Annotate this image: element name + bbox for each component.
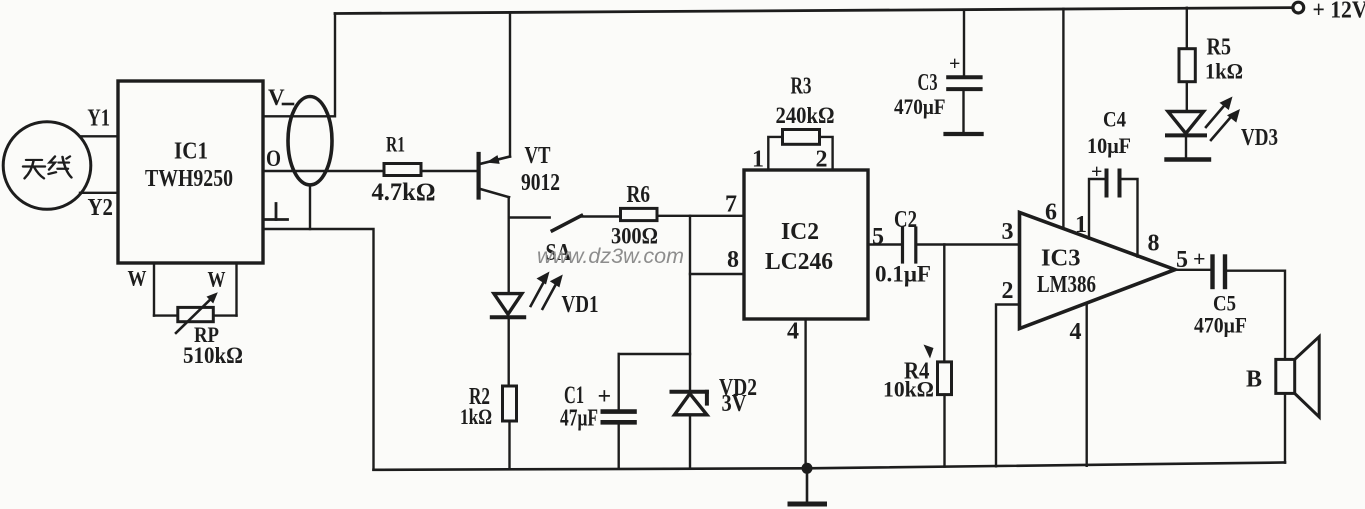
wire speaker to bottom rail [1284,393,1286,462]
capacitor C2 plates [903,228,916,262]
LED VD3 cathode bar [1167,133,1205,137]
op-amp IC3 LM386 triangle [1020,212,1176,328]
svg-text:W: W [208,267,226,292]
wire VT collector down to VD1 [508,198,510,294]
wire RP right [213,314,236,316]
wire W left stub [153,263,155,316]
capacitor C5 plates [1213,257,1226,288]
resistor R6 [621,208,658,220]
svg-text:10kΩ: 10kΩ [883,377,934,402]
wire O pin to R1 [263,170,384,172]
svg-text:R5: R5 [1207,35,1232,61]
wire IC2 pin4 to bottom rail [804,319,806,468]
wire R6 to IC2 pin 7 [657,215,744,217]
wire R4 to bottom rail [943,395,945,467]
wire VD3 stem [1185,135,1187,157]
wire VD1 to R2 [508,317,510,386]
svg-text:2: 2 [816,147,828,173]
svg-text:510kΩ: 510kΩ [183,343,243,368]
wire V- to top rail riser [263,14,335,117]
wire C4 left lead / pin1 [1089,179,1105,239]
wire VD2 to bottom rail [689,415,691,469]
switch SA wire right [582,215,621,217]
terminal +12V [1293,2,1304,13]
svg-text:5: 5 [872,224,884,250]
resistor R2 [503,386,517,421]
resistor R3 [783,130,820,145]
svg-text:R1: R1 [386,132,405,157]
svg-text:V: V [268,85,285,110]
transistor VT 9012 base bar [477,154,481,198]
wire node riser x690 (pin7 node down to VD2) [689,216,691,392]
wire IC3 pin6 riser to +12V rail [1062,9,1064,229]
svg-text:R6: R6 [627,182,651,208]
IC1 TWH9250 box [118,81,263,263]
svg-text:8: 8 [727,247,739,273]
R4 wiper blob [924,345,934,359]
svg-text:470μF: 470μF [1194,313,1247,338]
svg-text:VD1: VD1 [562,292,599,318]
svg-text:Y1: Y1 [87,106,110,132]
resistor R4 [938,362,952,395]
svg-text:C4: C4 [1103,107,1126,132]
wire IC3 output pin5 to C5 [1175,269,1210,271]
svg-text:VD3: VD3 [1241,125,1278,151]
capacitor C4 plates [1107,171,1120,196]
LED VD3 triangle [1168,112,1204,134]
wire Y2 [80,192,118,194]
speaker B horn [1295,337,1320,417]
svg-text:+ 12V: + 12V [1313,0,1365,24]
zener VD2 triangle [675,394,707,415]
LED VD1 triangle [494,294,522,315]
svg-text:470μF: 470μF [894,94,946,119]
svg-text:1kΩ: 1kΩ [460,404,492,429]
svg-text:+: + [1193,246,1206,271]
svg-text:1: 1 [752,147,764,173]
svg-text:6: 6 [1045,200,1057,226]
RP wiper arrow [176,297,213,333]
wire C3 bottom lead [962,91,964,132]
svg-text:+: + [598,384,612,410]
IC2 LC246 box [744,170,868,319]
potentiometer RP [178,307,214,321]
bottom rail [374,463,1286,470]
svg-text:1: 1 [1075,212,1087,238]
resistor R5 [1179,49,1195,82]
svg-text:www.dz3w.com: www.dz3w.com [537,245,684,268]
wire C2 to IC3 pin3 [918,243,1020,245]
svg-text:4: 4 [1070,319,1082,345]
svg-text:LM386: LM386 [1037,272,1096,298]
wire IC3 pin4 to bottom rail [1085,303,1087,466]
top rail +12V [335,8,1293,14]
svg-text:O: O [266,146,281,171]
svg-text:7: 7 [725,192,737,218]
svg-text:3: 3 [1002,219,1014,245]
svg-text:240kΩ: 240kΩ [776,103,835,128]
pin label ⊥ (ground pin) [266,204,288,220]
svg-text:B: B [1246,367,1262,393]
svg-text:VT: VT [525,143,551,169]
svg-text:5: 5 [1176,247,1188,273]
wire C5 to speaker [1227,271,1285,360]
cable ellipse marker [288,97,332,185]
svg-text:C2: C2 [894,207,917,233]
svg-text:IC1: IC1 [174,139,208,165]
svg-text:47μF: 47μF [560,406,598,432]
svg-text:4: 4 [787,319,799,345]
svg-text:R3: R3 [791,74,812,100]
svg-text:+: + [1091,161,1102,183]
svg-text:C3: C3 [918,70,938,96]
wire IC2 pin5 to C2 [868,243,901,245]
wire VT emitter riser to +12V rail [509,12,511,156]
wire ellipse bottom to ground wire [309,185,311,229]
svg-text:1kΩ: 1kΩ [1205,59,1243,84]
wire R3 to IC2 pin2 [820,137,833,170]
wire IC2 pin 8 [690,273,744,275]
wire R1 to VT base [421,170,476,172]
switch SA blade [552,216,581,231]
svg-text:3V: 3V [722,391,748,417]
wire IC3 pin2 to bottom rail [996,305,1020,467]
C3 end bar [946,132,982,136]
svg-text:8: 8 [1148,231,1160,257]
ground symbol [806,468,809,501]
wire C1 branch from node riser [619,353,690,355]
resistor R1 [384,164,421,176]
svg-text:TWH9250: TWH9250 [145,166,233,192]
svg-text:10μF: 10μF [1087,133,1131,158]
wire RP left [154,314,178,316]
wire IC1 ⊥ pin to bottom rail [263,229,374,470]
svg-text:0.1μF: 0.1μF [875,262,931,287]
switch SA wire left [509,216,550,219]
wire C1 bottom lead [618,424,620,469]
junction dot (pin4 / bottom rail) [802,463,813,474]
wire R2 to bottom rail [508,421,510,469]
svg-text:IC3: IC3 [1041,246,1081,272]
transistor VT collector [479,189,509,198]
svg-text:LC246: LC246 [765,249,833,275]
wire Y1 [80,135,118,137]
wire R5 to VD3 [1186,82,1188,112]
wire R5 top lead from rail [1186,8,1188,49]
svg-text:4.7kΩ: 4.7kΩ [372,179,436,206]
wire C3 top lead from rail [963,10,965,76]
antenna circle 天线 [3,122,91,210]
capacitor C1 plates [603,412,635,423]
wire R4 top lead [943,245,945,362]
transistor VT emitter (arrow into base) [479,157,510,165]
LED VD3 arrows [1206,104,1233,141]
wire W right stub [235,263,237,316]
LED VD1 cathode bar [492,315,524,319]
svg-text:W: W [128,266,147,291]
svg-text:9012: 9012 [521,170,560,196]
VD3 end bar [1167,157,1210,161]
svg-text:+: + [949,53,960,75]
zener VD2 cathode bar [672,392,707,404]
wire IC2 pin1 stub up [768,137,782,170]
svg-text:Y2: Y2 [88,195,114,221]
speaker B body [1276,359,1295,393]
antenna label 天线 (hand-drawn glyphs) [23,156,72,178]
capacitor C3 plates [948,77,980,89]
svg-text:IC2: IC2 [781,219,819,245]
LED VD1 arrows [531,282,556,309]
wire C1 top lead [618,354,620,409]
svg-text:2: 2 [1002,278,1014,304]
wire C4 right lead / pin8 [1122,179,1138,257]
